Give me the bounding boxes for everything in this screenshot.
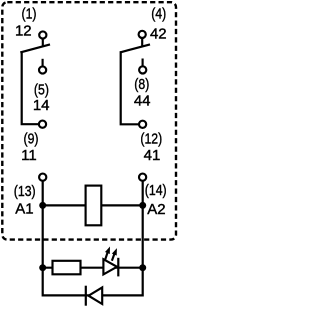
terminal 41 circle — [139, 121, 146, 128]
svg-text:(14): (14) — [145, 182, 167, 198]
svg-text:41: 41 — [144, 147, 161, 164]
svg-text:(1): (1) — [21, 6, 36, 22]
svg-text:44: 44 — [134, 93, 151, 110]
svg-text:(8): (8) — [134, 76, 149, 92]
pole1 movable arm from terminal 12 — [20, 44, 50, 52]
contact 44 circle — [139, 66, 146, 73]
junction dot indicator left — [39, 264, 46, 271]
terminal A2 circle — [139, 174, 146, 181]
junction dot A2 — [139, 202, 146, 209]
svg-text:(5): (5) — [34, 82, 49, 98]
svg-text:(9): (9) — [23, 131, 38, 147]
pole1 stub under terminal 12 — [42, 39, 44, 47]
terminal 42 circle — [139, 31, 146, 38]
wire indicator branch horizontal — [43, 267, 143, 269]
junction dot indicator right — [139, 264, 146, 271]
wire coil horizontal A1-A2 — [43, 204, 143, 206]
pole2 stub above contact 44 — [142, 59, 144, 67]
terminal A1 circle — [39, 174, 46, 181]
svg-text:A1: A1 — [15, 201, 33, 218]
svg-text:14: 14 — [33, 97, 50, 114]
LED light arrow 1 — [105, 247, 110, 260]
relay outline dashed box — [2, 2, 176, 239]
pole1 stub above contact 14 — [42, 59, 44, 67]
resistor R rectangle — [53, 261, 81, 275]
terminal 11 circle — [39, 121, 46, 128]
coil K rectangle — [86, 186, 102, 226]
pole2 movable arm from terminal 42 — [120, 44, 150, 52]
svg-text:(4): (4) — [151, 6, 166, 22]
LED D1 cathode bar — [117, 258, 119, 277]
diode D2 triangle — [89, 287, 103, 304]
pole2 stub under terminal 42 — [141, 38, 143, 47]
svg-text:42: 42 — [150, 25, 167, 42]
junction dot A1 — [39, 202, 46, 209]
svg-text:(13): (13) — [14, 183, 36, 199]
svg-text:12: 12 — [15, 23, 32, 40]
svg-text:(12): (12) — [140, 130, 162, 146]
contact 14 circle — [39, 66, 46, 73]
terminal 12 circle — [39, 31, 46, 38]
LED light arrow 2 — [112, 248, 117, 261]
diode D2 cathode bar — [85, 286, 87, 306]
LED D1 triangle — [103, 259, 117, 274]
svg-text:A2: A2 — [147, 201, 165, 218]
wire A1-A2 loop vertical sides and bottom branch — [43, 181, 143, 296]
pole1 rail wire down to 11 — [22, 51, 39, 124]
pole2 rail wire down to 41 — [121, 51, 139, 124]
svg-text:11: 11 — [21, 147, 37, 164]
